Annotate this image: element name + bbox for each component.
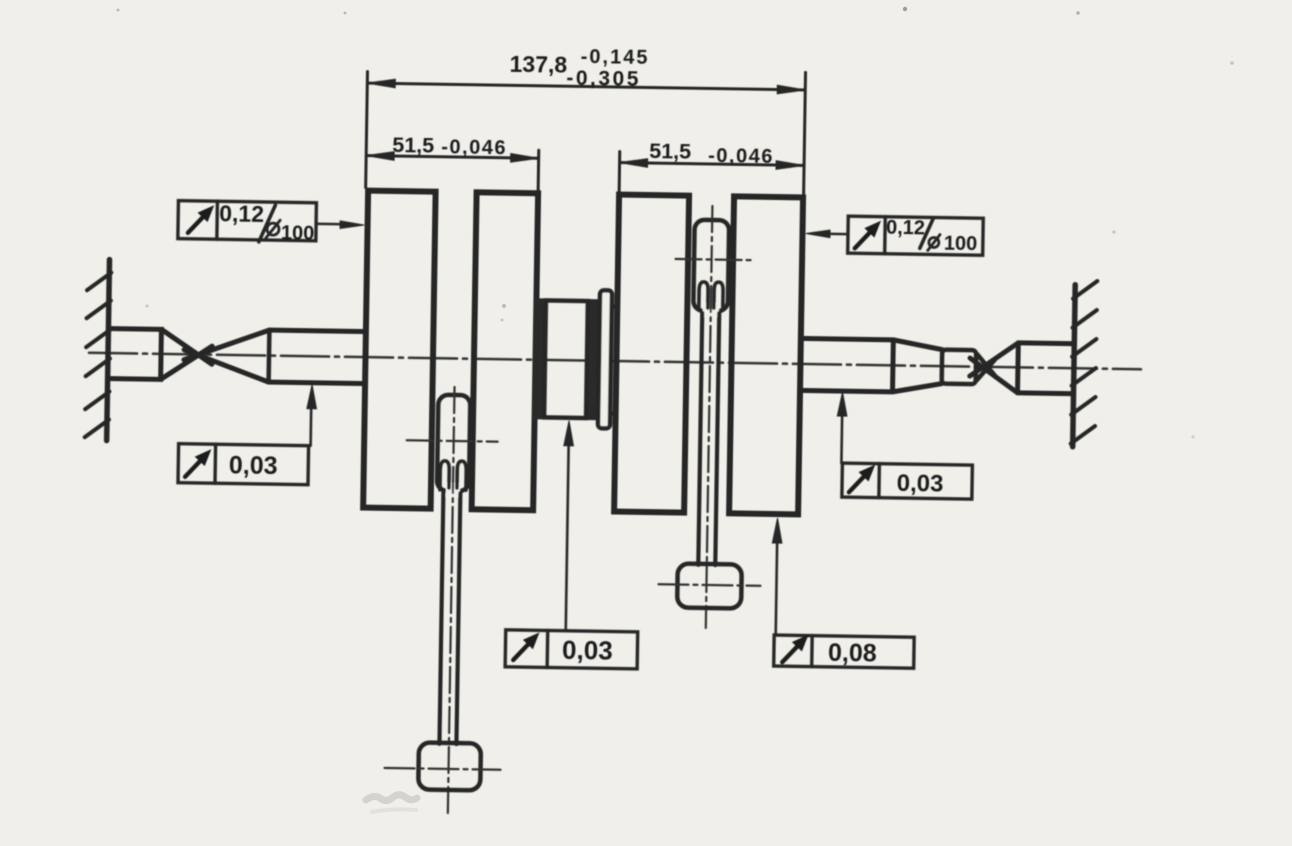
svg-text:51,5: 51,5 (392, 133, 434, 158)
runout flag 0,03 center symbol (513, 634, 537, 660)
right rod shank (698, 313, 719, 565)
right rod centerline vertical (706, 206, 713, 628)
svg-text:0,12: 0,12 (219, 200, 264, 227)
runout flag left phi symbol (266, 220, 280, 238)
left rod small end (418, 742, 481, 790)
right crank pin centerline horizontal (676, 259, 751, 260)
runout flag 0,12/100 left box (178, 201, 317, 241)
left shaft cone shoulder (266, 330, 271, 382)
svg-text:51,5: 51,5 (649, 139, 691, 164)
runout flag right slash (920, 218, 933, 248)
right big end bottom gap mask (703, 303, 719, 317)
paper specks (117, 7, 1234, 439)
right shaft taper (893, 340, 943, 393)
dimension 137,8 line (367, 83, 805, 90)
right shaft tip cone (977, 354, 995, 380)
right lathe center cone (970, 342, 1019, 393)
runout flag left leader arrowhead (340, 221, 364, 229)
svg-text:-0,305: -0,305 (566, 67, 641, 91)
runout flag 0,03 right box (842, 463, 973, 499)
runout flag 0,03 left divider (213, 444, 217, 483)
dimension 51,5 left line (366, 156, 538, 159)
dimension 51,5 right line (620, 163, 804, 166)
runout flag left leader (316, 222, 343, 225)
runout flag 0,03 right symbol (849, 467, 873, 493)
dimension 51,5 left arrowhead R (511, 154, 539, 163)
dimension 51,5 right arrowhead L (620, 158, 648, 167)
right rod big end (693, 220, 729, 312)
right lathe center body (1018, 343, 1075, 394)
svg-text:100: 100 (944, 233, 978, 256)
left main journal (269, 330, 366, 384)
dimension 51,5 left arrowhead L (366, 151, 394, 160)
runout flag left symbol (188, 207, 212, 233)
runout flag 0,03 right leader arrowhead (837, 392, 847, 416)
dimension 51,5 right arrowhead R (776, 161, 804, 170)
right fixed support wall (1073, 285, 1076, 447)
left small end centerline horizontal (385, 768, 501, 770)
dimension 137,8 extension line right (804, 72, 806, 194)
left rod shank (439, 493, 460, 744)
dimension 51,5 left extension line right (537, 150, 541, 190)
left crank pin centerline horizontal (407, 440, 498, 441)
svg-text:0,03: 0,03 (229, 451, 278, 480)
left wall hatching (85, 272, 112, 437)
left lathe center cone (161, 329, 213, 380)
svg-text:-0,046: -0,046 (441, 136, 507, 159)
runout flag right leader (827, 233, 848, 236)
runout flag 0,08 box (774, 635, 914, 668)
runout flag right phi symbol (928, 234, 940, 250)
left big end bottom gap mask (446, 483, 460, 497)
svg-text:-0,046: -0,046 (708, 145, 774, 168)
center main journal (544, 300, 588, 418)
runout flag left slash (259, 205, 276, 242)
left rod big end (437, 395, 471, 491)
runout flag 0,03 right leader (840, 415, 843, 463)
flange-to-web step (610, 306, 617, 413)
runout flag right divider (883, 217, 887, 254)
svg-text:0,08: 0,08 (828, 639, 877, 668)
left rod shank fillet hooks (440, 461, 466, 490)
runout flag right symbol (855, 223, 879, 249)
runout flag 0,08 leader (776, 542, 777, 635)
runout flag 0,08 symbol (782, 637, 806, 663)
runout flag 0,08 leader arrowhead (772, 518, 782, 543)
left shaft end cone (184, 329, 270, 382)
crank web 2 (472, 192, 538, 510)
svg-text:-0,145: -0,145 (581, 46, 650, 69)
right rod shank fillet hooks (699, 282, 723, 310)
center journal right shading (588, 299, 602, 420)
right rod small end (677, 564, 742, 609)
runout flag 0,03 left symbol (185, 451, 209, 477)
runout flag 0,03 center box (505, 630, 638, 669)
crank web 3 (614, 195, 689, 513)
crank web 1 (363, 191, 435, 509)
runout flag right leader arrowhead (806, 230, 830, 238)
svg-text:137,8: 137,8 (509, 51, 567, 78)
right small end centerline horizontal (658, 584, 760, 586)
runout flag 0,03 center divider (545, 630, 549, 667)
runout flag 0,12/100 right box (848, 216, 984, 255)
center flange collar (598, 290, 612, 428)
svg-text:0,12: 0,12 (886, 217, 925, 240)
center journal left shading (532, 298, 546, 419)
dimension 137,8 left arrowhead (367, 79, 395, 88)
dimension 51,5 right extension line left (618, 152, 622, 192)
main axis centerline (89, 353, 1141, 370)
svg-text:0,03: 0,03 (562, 635, 613, 666)
left rod centerline vertical (448, 387, 455, 817)
right small cylinder (942, 350, 977, 385)
paper smudge bottom (366, 795, 417, 812)
svg-text:0,03: 0,03 (897, 470, 944, 498)
right wall hatching (1071, 281, 1098, 444)
left fixed support wall (107, 260, 110, 441)
runout flag 0,08 divider (810, 636, 814, 667)
runout flag 0,03 left leader arrowhead (307, 385, 317, 409)
right shaft journal (800, 338, 893, 391)
dimension 137,8 right arrowhead (777, 85, 805, 94)
runout flag 0,03 left leader (309, 407, 312, 446)
left lathe center body (108, 329, 162, 380)
runout flag 0,03 left box (178, 444, 309, 485)
runout flag 0,03 center leader arrowhead (564, 421, 574, 446)
runout flag left divider (215, 201, 219, 239)
svg-text:100: 100 (281, 222, 315, 245)
runout flag 0,03 center leader (566, 445, 569, 631)
runout flag 0,03 right divider (877, 464, 881, 498)
dimension 137,8 extension line left (366, 72, 368, 188)
crank web 4 (729, 196, 803, 514)
right shaft junction line (890, 340, 896, 392)
